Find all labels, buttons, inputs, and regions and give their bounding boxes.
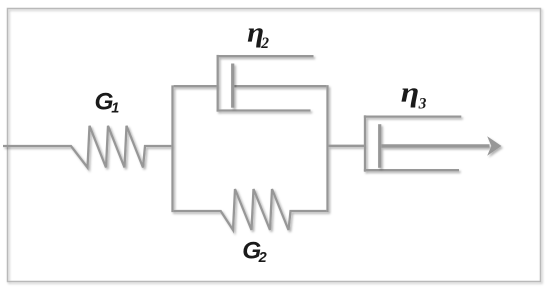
svg-text:1: 1 (111, 100, 119, 116)
svg-text:2: 2 (258, 250, 267, 266)
svg-text:2: 2 (260, 35, 269, 52)
svg-text:η: η (401, 78, 420, 109)
svg-text:3: 3 (418, 96, 427, 113)
